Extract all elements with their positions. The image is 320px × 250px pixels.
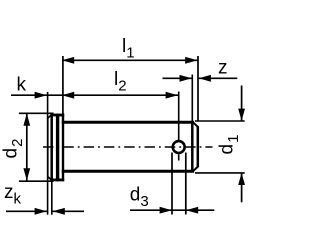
pin end chamfer top slant bbox=[193, 122, 198, 127]
arrowhead d2 bottom bbox=[23, 168, 30, 180]
head right edge bbox=[56, 114, 59, 182]
svg-text:z: z bbox=[218, 58, 228, 79]
extension line head chamfer inner lower (for zk) bbox=[51, 182, 53, 215]
pin end chamfer line bbox=[191, 121, 194, 172]
centerline bbox=[43, 146, 213, 148]
dimension line zk left segment bbox=[6, 210, 47, 212]
arrowhead d2 top bbox=[23, 114, 30, 126]
arrowhead l1 left bbox=[62, 57, 74, 64]
head junction line bbox=[62, 114, 64, 182]
arrowhead d1 top outside bbox=[238, 109, 245, 121]
extension line hole left (for d3) bbox=[171, 153, 173, 215]
hole circle bbox=[173, 141, 185, 153]
arrowhead zk right outside bbox=[53, 208, 65, 215]
dimension line k and l2 bbox=[11, 94, 179, 96]
extension line head right junction (for l1, l2, k) bbox=[62, 56, 64, 116]
extension line shank top right (for d1) bbox=[195, 120, 245, 122]
shank top edge bbox=[62, 121, 194, 124]
dimension line d1 upper segment bbox=[241, 86, 243, 121]
dimension line zk right segment bbox=[52, 210, 84, 212]
head left face bbox=[47, 118, 49, 177]
arrowhead d3 left outside bbox=[160, 207, 172, 214]
extension line head left face lower (for zk) bbox=[47, 177, 49, 215]
extension line head left face upper (for k) bbox=[47, 92, 49, 119]
dimension line z left segment bbox=[163, 77, 193, 79]
head bottom edge bbox=[50, 178, 64, 181]
arrowhead l2 right bbox=[166, 92, 178, 99]
arrowhead d3 right outside bbox=[186, 207, 198, 214]
pin end right edge bbox=[197, 126, 200, 167]
dimension line d3 bbox=[130, 209, 214, 211]
extension line shank bottom right (for d1) bbox=[195, 172, 245, 174]
arrowhead d1 bottom outside bbox=[238, 173, 245, 185]
arrowhead k left outside bbox=[35, 92, 47, 99]
extension line pin end chamfer (for z) bbox=[191, 75, 193, 122]
hole centerline stub below bbox=[178, 154, 180, 160]
pin end chamfer bottom slant bbox=[193, 167, 198, 172]
arrowhead z right bbox=[199, 75, 211, 82]
extension line hole center (for l2) bbox=[178, 92, 180, 141]
arrowhead l1 right bbox=[185, 57, 197, 64]
extension line pin end (for l1, z) bbox=[197, 56, 199, 121]
head chamfer inner line bbox=[50, 114, 53, 182]
extension line head bottom left (for d2) bbox=[19, 180, 54, 182]
arrowhead zk left outside bbox=[35, 208, 47, 215]
dimension line d2 bbox=[26, 114, 28, 181]
shank bottom edge bbox=[62, 170, 194, 173]
dimension line d1 lower segment bbox=[241, 173, 243, 202]
extension line head top left (for d2) bbox=[19, 112, 54, 114]
dimension line z right segment bbox=[198, 77, 237, 79]
dimension line l1 bbox=[62, 59, 197, 61]
head chamfer top slant bbox=[48, 115, 52, 119]
extension line hole right (for d3) bbox=[185, 153, 187, 215]
arrowhead l2 left (k right outside) bbox=[62, 92, 74, 99]
arrowhead z left bbox=[180, 75, 192, 82]
head top edge bbox=[50, 114, 64, 117]
head chamfer bottom slant bbox=[48, 176, 52, 180]
svg-text:k: k bbox=[17, 75, 27, 96]
